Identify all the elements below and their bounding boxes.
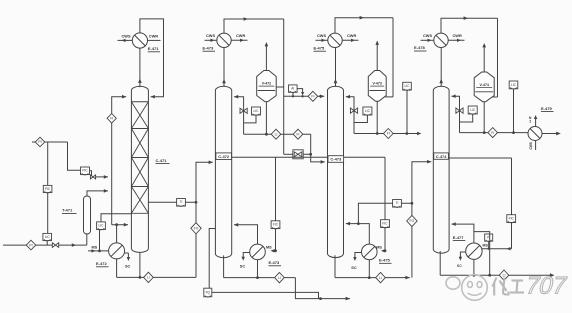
wire steam drop C-474: [511, 158, 513, 249]
wire E-479 vent: [535, 117, 537, 127]
svg-text:CWS: CWS: [529, 142, 533, 149]
wire bottom transfer: [212, 292, 319, 298]
wire condenser E-478 loop: [441, 18, 498, 33]
svg-text:2: 2: [529, 120, 531, 124]
svg-text:LI: LI: [278, 276, 281, 280]
instrument box side C-473: [393, 200, 402, 208]
wire box stem down: [406, 90, 408, 133]
drum V-474: [474, 72, 494, 102]
wire vapor line C-474: [440, 48, 442, 87]
diamond bottoms C-472: [275, 272, 285, 282]
wire CWS inlet: [421, 39, 434, 41]
wire condenser E-475 loop: [335, 18, 393, 33]
watermark text 化: [493, 278, 509, 296]
wire T-471 overhead: [87, 191, 108, 196]
svg-text:E-479: E-479: [541, 106, 552, 111]
wire box loop arrow: [297, 89, 303, 93]
diamond FO riser: [407, 215, 417, 226]
instrument box bottom: [204, 288, 212, 297]
svg-text:FQ: FQ: [206, 290, 211, 294]
svg-text:LIC: LIC: [99, 224, 105, 228]
wire reboiler riser to C-471: [116, 225, 118, 243]
wire vapor line C-472: [223, 48, 225, 87]
tray line C-471 head: [131, 101, 148, 103]
column C-473: [328, 86, 344, 257]
wire T-471 bottom riser: [86, 234, 88, 245]
wire SC condensate: [125, 252, 129, 254]
wire SC E-476: [355, 253, 362, 260]
wire V-473 vent: [376, 43, 378, 71]
svg-text:FIC: FIC: [382, 222, 388, 226]
svg-text:FIC: FIC: [273, 223, 279, 227]
diamond distillate: [271, 129, 281, 139]
wire V-474 vent: [483, 45, 485, 72]
svg-text:CWR: CWR: [453, 33, 462, 38]
svg-text:E-475: E-475: [379, 257, 390, 262]
label box C-474: [434, 153, 449, 159]
label box C-472: [216, 153, 232, 160]
svg-text:CWS: CWS: [317, 33, 326, 38]
wire condenser E-471 loop: [140, 19, 164, 97]
valve feed: [52, 243, 58, 248]
svg-text:E-478: E-478: [414, 45, 425, 50]
svg-text:MS: MS: [266, 246, 272, 250]
wire reflux riser C-472: [234, 97, 244, 135]
wire condensate into V-473: [385, 96, 393, 98]
diamond left train: [35, 137, 45, 147]
diamond FI distillate: [293, 129, 303, 139]
svg-text:FIC: FIC: [509, 217, 515, 221]
svg-text:V-473: V-473: [372, 82, 381, 86]
wire side line C-473: [358, 203, 412, 223]
svg-text:AI: AI: [291, 87, 294, 91]
wire E-477 drain: [473, 259, 475, 275]
wire distillate line y=134: [244, 133, 311, 135]
svg-text:E-471: E-471: [148, 46, 159, 51]
svg-text:PIC: PIC: [82, 169, 88, 173]
condenser E-473: [217, 33, 231, 47]
svg-text:707: 707: [523, 273, 570, 300]
wire riser E-474: [234, 225, 258, 244]
svg-text:C-474: C-474: [436, 154, 447, 159]
wire right drop: [68, 142, 81, 170]
instrument box steam drop: [507, 215, 516, 223]
svg-text:PIC: PIC: [45, 187, 51, 191]
drum V-472: [257, 71, 277, 102]
wire CWR outlet: [342, 39, 358, 41]
wire SC E-477: [460, 252, 465, 259]
wire reflux riser C-474: [451, 96, 459, 132]
svg-text:FI: FI: [491, 131, 494, 135]
watermark text 工: [510, 281, 524, 293]
svg-text:MS: MS: [376, 245, 382, 249]
wire CWR outlet: [448, 39, 464, 41]
instrument box side C-471: [177, 199, 186, 207]
wire C-471 bottoms outlet: [139, 252, 141, 277]
wire side line C-471: [148, 201, 196, 203]
reboiler E-477: [466, 243, 482, 259]
svg-text:CWS: CWS: [423, 33, 432, 38]
wire steam drop C-472: [275, 157, 277, 251]
svg-text:TI: TI: [180, 200, 183, 204]
watermark logo: [446, 275, 487, 301]
label box C-473: [328, 156, 344, 163]
wire V-472 outlet: [265, 102, 267, 135]
svg-text:FI: FI: [311, 95, 314, 99]
diamond FI reflux: [107, 114, 116, 124]
instrument box steam drop: [271, 221, 280, 229]
valve reflux C-472: [240, 108, 247, 113]
wire box stem down to MS line: [99, 230, 101, 251]
instrument box V-474: [509, 81, 518, 89]
wire V-473 outlet: [376, 101, 378, 133]
wire riser branch to bottoms: [474, 232, 490, 276]
wire box stem down: [513, 89, 515, 133]
wire steam header right: [449, 157, 511, 159]
wire product line C-474: [460, 132, 529, 134]
wire controller link: [355, 115, 368, 122]
wire left drop: [47, 142, 49, 233]
svg-text:LI: LI: [275, 132, 278, 136]
wire controller link: [244, 115, 256, 123]
wire CWS inlet: [118, 39, 133, 41]
wire distillate line C-473: [354, 133, 420, 135]
wire feed line: [3, 244, 87, 246]
wire feed header x=111.7: [111, 123, 113, 225]
column C-471: [131, 86, 148, 252]
wire reflux left into C-471: [112, 97, 127, 114]
diamond bottoms C-471: [144, 272, 154, 282]
svg-text:LI: LI: [379, 276, 382, 280]
column C-472: [215, 86, 231, 257]
svg-text:E-477: E-477: [453, 235, 464, 240]
svg-text:C-473: C-473: [330, 157, 342, 162]
wire riser E-476: [346, 224, 370, 245]
wire drain line C-472 left: [209, 229, 215, 289]
reboiler E-476: [362, 244, 378, 260]
valve reflux C-473: [350, 108, 357, 113]
column C-474: [433, 86, 449, 253]
svg-text:SC: SC: [457, 264, 462, 268]
svg-text:PI: PI: [29, 243, 32, 247]
wire condensate into V-472: [276, 86, 283, 88]
svg-text:CWR: CWR: [236, 33, 245, 38]
controller box PIC: [81, 167, 90, 175]
svg-text:MS: MS: [92, 245, 98, 249]
instrument box top product: [289, 85, 298, 93]
instrument box steam drop: [381, 220, 390, 228]
svg-text:SC: SC: [351, 266, 357, 270]
wire E-474 drain: [257, 260, 259, 278]
cooler E-479: [528, 127, 542, 141]
svg-text:V-472: V-472: [262, 82, 271, 86]
vessel T-471: [84, 196, 91, 234]
diamond top product: [308, 91, 318, 101]
wire box stem: [292, 92, 294, 96]
svg-text:E-473: E-473: [203, 45, 214, 50]
wire condenser E-473 loop: [224, 19, 284, 33]
svg-text:MS: MS: [483, 243, 489, 247]
svg-text:LIC: LIC: [470, 108, 476, 112]
condenser E-478: [434, 33, 448, 47]
condenser E-475: [328, 33, 342, 47]
svg-text:E-472: E-472: [96, 261, 107, 266]
svg-text:CWS: CWS: [206, 33, 215, 38]
wire CWS inlet: [316, 39, 328, 41]
wire feed drop to C-473: [311, 134, 325, 162]
controller box reflux C-474: [468, 106, 477, 114]
diamond product: [488, 128, 498, 138]
svg-text:TI: TI: [396, 201, 399, 205]
wire condensate into V-474: [493, 96, 498, 98]
controller box bottom C-471: [97, 222, 106, 230]
svg-text:CWS: CWS: [122, 33, 131, 38]
wire MS line E-474: [274, 249, 277, 252]
wire steam header mid: [344, 156, 386, 158]
wire C-474 bottoms: [439, 251, 441, 275]
instrument box MS: [485, 234, 493, 242]
wire MS steam line: [88, 250, 109, 252]
diamond feed: [26, 240, 36, 250]
svg-text:FI: FI: [296, 132, 299, 136]
svg-text:PI: PI: [38, 140, 41, 144]
wire riser E-477: [452, 224, 474, 243]
wire E-479 CWS: [535, 141, 537, 151]
svg-text:LI: LI: [503, 273, 506, 277]
wire box1 to header: [90, 171, 92, 177]
svg-text:CWR: CWR: [347, 33, 356, 38]
svg-text:LIC: LIC: [405, 84, 411, 88]
wire reboiler drain: [116, 259, 118, 278]
control valve C-472 distillate: [293, 150, 303, 159]
svg-text:FO: FO: [410, 219, 415, 223]
wire steam header left: [232, 156, 328, 158]
svg-text:C-471: C-471: [156, 158, 168, 163]
condenser E-471: [132, 33, 147, 48]
wire box stem: [488, 241, 490, 248]
wire controller link: [460, 114, 473, 122]
wire MS line E-476: [384, 249, 387, 252]
diamond FO riser: [191, 223, 201, 234]
svg-text:LI: LI: [147, 276, 150, 280]
packing sections C-471: [131, 128, 148, 130]
svg-text:LIC: LIC: [254, 109, 260, 113]
wire left instrument train: [32, 141, 68, 143]
valve reflux C-474: [456, 108, 463, 113]
diamond distillate: [384, 129, 394, 139]
wire V-474 outlet: [483, 102, 485, 133]
reboiler E-472: [109, 243, 125, 259]
wire bottoms drop: [295, 278, 350, 299]
wire control valve branch: [284, 153, 293, 155]
svg-text:SC: SC: [125, 265, 131, 269]
svg-text:LIC: LIC: [511, 83, 517, 87]
svg-text:E-473: E-473: [269, 260, 280, 265]
wire riser C-473 to C-474 feed: [412, 162, 431, 278]
wire CWR outlet: [231, 39, 247, 41]
wire feed into C-471: [112, 224, 128, 226]
svg-text:FO: FO: [194, 227, 199, 231]
wire steam drop C-473: [384, 157, 386, 251]
wire top product to C-473: [284, 95, 325, 97]
wire riser C-471 to C-472 feed: [196, 162, 213, 277]
wire C-472 bottoms: [223, 255, 225, 277]
controller box reflux C-473: [363, 107, 372, 115]
wire V-472 vent: [265, 44, 267, 71]
wire reflux riser C-473: [346, 97, 354, 134]
instrument box V-473: [403, 82, 412, 90]
svg-text:C-472: C-472: [218, 154, 230, 159]
wire CWR outlet: [148, 39, 161, 41]
svg-text:CWR: CWR: [149, 33, 158, 38]
wire MS line E-477: [482, 248, 512, 250]
controller box mid: [43, 185, 52, 193]
diamond bottoms C-473: [376, 272, 386, 282]
diamond bottoms C-474: [499, 270, 509, 280]
svg-text:T-471: T-471: [62, 208, 73, 213]
wire C-471 bottoms header: [117, 276, 196, 278]
wire C-473 bottoms: [334, 255, 336, 277]
wire E-476 drain: [368, 260, 370, 278]
svg-text:E-475: E-475: [314, 45, 325, 50]
wire box stem up to column line: [101, 214, 131, 222]
svg-text:FI: FI: [387, 132, 390, 136]
controller box reflux C-472: [252, 107, 261, 115]
drum V-473: [368, 71, 386, 102]
wire box stem: [46, 241, 48, 246]
wire SC E-474: [243, 253, 250, 260]
wire vapor line C-471 to E-471: [139, 48, 141, 87]
svg-text:SC: SC: [240, 264, 246, 268]
wire product out: [542, 133, 559, 135]
controller box feed: [43, 233, 52, 241]
svg-text:LIC: LIC: [45, 235, 51, 239]
reboiler E-474: [250, 244, 266, 260]
wire CWS inlet: [205, 39, 217, 41]
svg-text:V-474: V-474: [479, 83, 488, 87]
wire vapor line C-473: [335, 48, 337, 87]
svg-text:LIC: LIC: [365, 109, 371, 113]
svg-text:FI: FI: [110, 117, 113, 121]
